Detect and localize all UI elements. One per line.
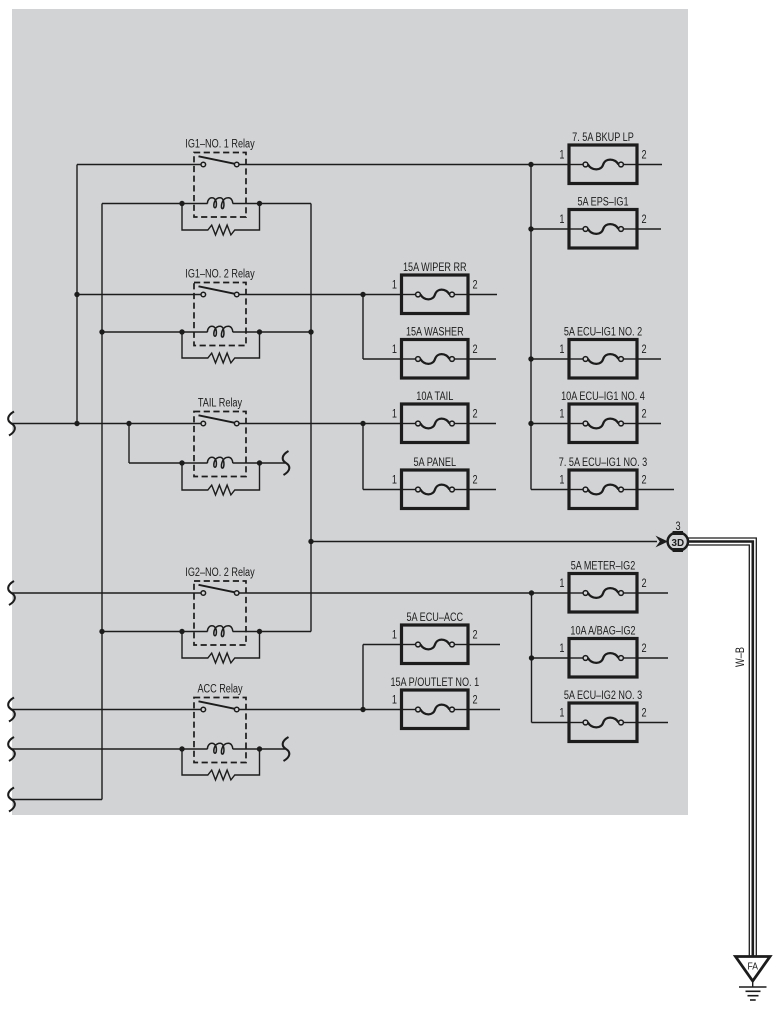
svg-text:1: 1: [559, 409, 564, 421]
wire: bus x311: [310, 204, 312, 632]
relay IG1-NO.2: [185, 269, 255, 346]
svg-text:1: 1: [559, 708, 564, 720]
svg-text:W–B: W–B: [735, 647, 747, 667]
wire: TAIL/PANEL bus: [363, 424, 402, 490]
svg-text:2: 2: [473, 344, 478, 356]
wire: IG1-NO.2 coil line: [102, 331, 311, 333]
fuse 15A WIPER RR: [392, 262, 478, 314]
svg-text:5A ECU–IG2 NO. 3: 5A ECU–IG2 NO. 3: [564, 690, 642, 702]
svg-text:1: 1: [392, 344, 397, 356]
svg-text:2: 2: [642, 708, 647, 720]
fuse 5A EPS-IG1: [559, 197, 646, 249]
wire: IG2 fuse bus x531: [532, 593, 570, 723]
fuse 10A ECU-IG1 NO.4: [559, 391, 646, 443]
svg-text:3: 3: [675, 521, 680, 533]
svg-text:1: 1: [559, 475, 564, 487]
svg-text:15A WIPER RR: 15A WIPER RR: [403, 262, 467, 274]
svg-text:1: 1: [559, 344, 564, 356]
svg-text:2: 2: [473, 409, 478, 421]
svg-text:1: 1: [392, 630, 397, 642]
svg-text:2: 2: [642, 214, 647, 226]
wire: IG1-NO.1 switch line: [77, 164, 569, 166]
pin 3 label: [675, 521, 680, 533]
svg-text:5A EPS–IG1: 5A EPS–IG1: [578, 197, 629, 209]
wire: ACC coil line: [11, 748, 286, 750]
svg-text:IG1–NO. 1 Relay: IG1–NO. 1 Relay: [185, 139, 255, 151]
wire break symbols right of coils: [283, 451, 290, 761]
wire: bus left x77: [76, 165, 78, 424]
svg-text:1: 1: [392, 695, 397, 707]
wire: TAIL switch line to TAIL fuse: [11, 423, 402, 425]
svg-text:2: 2: [473, 630, 478, 642]
wire: TAIL coil line: [129, 462, 285, 464]
fuse 10A TAIL: [392, 391, 478, 443]
relay ACC: [194, 684, 246, 763]
svg-text:10A TAIL: 10A TAIL: [416, 391, 454, 403]
wire: IG1 fuse bus x531: [531, 165, 569, 490]
svg-text:5A METER–IG2: 5A METER–IG2: [571, 561, 636, 573]
connector 3D oval: [668, 531, 688, 552]
svg-text:1: 1: [559, 643, 564, 655]
svg-text:1: 1: [559, 150, 564, 162]
wire: fuse outputs right column: [637, 165, 674, 723]
svg-text:5A ECU–ACC: 5A ECU–ACC: [407, 612, 464, 624]
wire: IG1-NO.2 switch line to WIPER fuse: [77, 294, 402, 296]
resistor: IG1-NO.2 parallel: [182, 332, 260, 363]
svg-text:7. 5A BKUP LP: 7. 5A BKUP LP: [572, 132, 634, 144]
svg-text:15A WASHER: 15A WASHER: [406, 327, 464, 339]
svg-text:2: 2: [642, 578, 647, 590]
wire break symbols left edge: [8, 412, 15, 812]
wire: IG1-NO.1 coil line: [102, 203, 311, 205]
svg-text:7. 5A ECU–IG1 NO. 3: 7. 5A ECU–IG1 NO. 3: [559, 457, 647, 469]
resistor: IG1-NO.1 parallel: [182, 204, 260, 235]
svg-text:2: 2: [642, 344, 647, 356]
svg-text:3D: 3D: [672, 537, 685, 549]
svg-text:10A ECU–IG1 NO. 4: 10A ECU–IG1 NO. 4: [561, 391, 645, 403]
wire W-B triple line: [688, 538, 757, 957]
relay TAIL: [194, 398, 246, 477]
svg-text:2: 2: [642, 150, 647, 162]
wire: ACC switch line to P/OUTLET fuse: [11, 709, 402, 711]
wire: bottom feed line: [11, 799, 103, 801]
svg-text:IG2–NO. 2 Relay: IG2–NO. 2 Relay: [185, 567, 255, 579]
svg-text:TAIL Relay: TAIL Relay: [198, 398, 242, 410]
wire: IG2-NO.2 switch line to METER fuse: [11, 592, 570, 594]
fuse 5A ECU-ACC: [392, 612, 478, 664]
svg-text:1: 1: [392, 475, 397, 487]
svg-text:FA: FA: [747, 961, 758, 973]
svg-text:15A P/OUTLET NO. 1: 15A P/OUTLET NO. 1: [390, 677, 479, 689]
svg-text:ACC Relay: ACC Relay: [197, 684, 242, 696]
resistor: IG2-NO.2 parallel: [182, 632, 260, 663]
background panel: [12, 9, 688, 815]
wire: TAIL coil drop: [128, 424, 130, 464]
svg-text:2: 2: [473, 475, 478, 487]
svg-text:10A A/BAG–IG2: 10A A/BAG–IG2: [570, 626, 635, 638]
wire: IG2-NO.2 coil line: [102, 631, 311, 633]
label W-B: [735, 647, 747, 667]
svg-text:1: 1: [559, 214, 564, 226]
svg-text:5A PANEL: 5A PANEL: [413, 457, 456, 469]
svg-text:1: 1: [559, 578, 564, 590]
fuse 10A A/BAG-IG2: [559, 626, 646, 678]
fuse 5A METER-IG2: [559, 561, 646, 613]
resistor: ACC parallel: [182, 749, 260, 780]
svg-text:2: 2: [642, 643, 647, 655]
wire: fuse outputs middle column: [468, 295, 500, 710]
svg-text:2: 2: [473, 280, 478, 292]
svg-text:2: 2: [642, 409, 647, 421]
wire: WIPER/WASHER bus: [363, 295, 402, 360]
fuse 5A ECU-IG2 NO.3: [559, 690, 646, 742]
fuse 15A WASHER: [392, 327, 478, 379]
wire: ECU-ACC bus: [363, 645, 402, 710]
svg-text:2: 2: [473, 695, 478, 707]
svg-text:2: 2: [642, 475, 647, 487]
svg-text:1: 1: [392, 280, 397, 292]
relay IG1-NO.1: [185, 139, 255, 218]
resistor: TAIL parallel: [182, 463, 260, 495]
svg-text:1: 1: [392, 409, 397, 421]
svg-text:5A ECU–IG1 NO. 2: 5A ECU–IG1 NO. 2: [564, 327, 642, 339]
relay IG2-NO.2: [185, 567, 255, 645]
svg-text:IG1–NO. 2 Relay: IG1–NO. 2 Relay: [185, 269, 255, 281]
fuse 5A ECU-IG1 NO.2: [559, 327, 646, 379]
fuse 15A P/OUTLET NO.1: [390, 677, 479, 729]
wire: line to connector 3D: [311, 541, 657, 543]
ground triangle FA: [736, 957, 771, 982]
wire: bus left x102: [101, 204, 103, 800]
fuse 7.5A BKUP LP: [559, 132, 646, 184]
connector arrow into 3D: [656, 536, 669, 548]
ground symbol: [739, 981, 767, 1000]
fuse 7.5A ECU-IG1 NO.3: [559, 457, 647, 509]
fuse 5A PANEL: [392, 457, 478, 509]
